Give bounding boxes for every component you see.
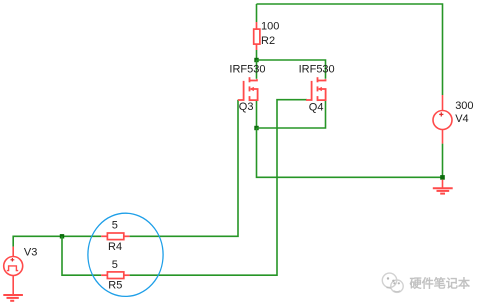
svg-text:IRF530: IRF530 (229, 64, 265, 76)
wire branch down to R5 row (62, 236, 101, 275)
wire R4 to Q3 gate (130, 100, 238, 237)
wire Q3 drain (256, 60, 258, 79)
svg-text:5: 5 (112, 219, 118, 231)
resistor R5 (101, 272, 129, 279)
node junction below R2 (254, 58, 258, 62)
V4 plus mark (439, 112, 443, 116)
wire junction to Q4 drain (257, 60, 326, 79)
wire junction down to ground rail (257, 128, 443, 177)
node junction V3 branch (60, 234, 64, 238)
svg-text:Q3: Q3 (239, 101, 254, 113)
wire R5 to Q4 gate (130, 100, 307, 276)
ground V3 (3, 295, 23, 301)
transistor Q3 (238, 77, 258, 101)
source V3 (4, 247, 23, 295)
svg-text:5: 5 (112, 259, 118, 271)
svg-text:100: 100 (261, 21, 279, 33)
svg-text:V3: V3 (24, 247, 37, 259)
annotation blue circle (88, 213, 163, 296)
wire Q3 source down to junction (256, 101, 258, 128)
svg-text:Q4: Q4 (309, 102, 324, 114)
wire V3 to R4 row (13, 236, 101, 246)
wire R2 bottom to junction (256, 50, 258, 60)
V3 plus mark (11, 258, 15, 262)
node ground junction (440, 175, 445, 180)
source V4 (433, 95, 452, 144)
wire top rail from R2 to V4 (257, 4, 443, 95)
svg-text:300: 300 (455, 100, 473, 112)
V3 pulse waveform (7, 266, 18, 271)
wire junction to Q4 source (257, 101, 326, 128)
svg-text:IRF530: IRF530 (299, 64, 335, 76)
wire R2 top stub (256, 4, 258, 22)
resistor R2 (254, 22, 260, 50)
wire V4 bottom to ground junction (442, 144, 444, 178)
svg-text:R2: R2 (261, 35, 275, 47)
resistor R4 (101, 233, 129, 240)
svg-text:V4: V4 (455, 113, 468, 125)
transistor Q4 (306, 77, 326, 101)
svg-text:硬件笔记本: 硬件笔记本 (410, 276, 471, 291)
watermark logo (382, 273, 403, 292)
svg-text:R4: R4 (108, 241, 122, 253)
ground right (433, 180, 453, 194)
node junction sources (254, 126, 258, 130)
svg-text:R5: R5 (108, 279, 122, 291)
